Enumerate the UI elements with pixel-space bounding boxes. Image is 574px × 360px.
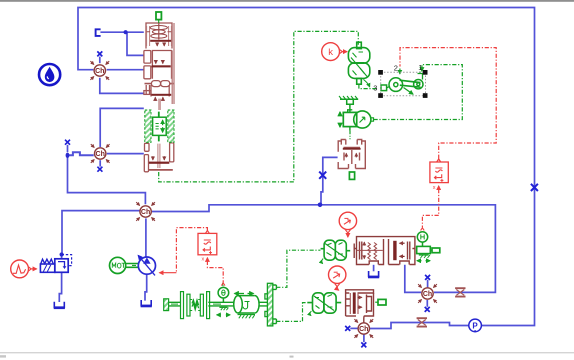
angle sensor theta [217,283,230,315]
spool valve left arrows [363,242,365,258]
signal plug right of spool [430,248,440,253]
orifice R1 upper [455,288,465,296]
flapper valve lower land [353,292,356,313]
tank under spool valve [368,271,379,277]
servo valve bottom chamber arrows [153,156,164,160]
servo valve pilot armature bar [150,40,171,42]
LVDT sensor H on spool [417,232,427,247]
signal source waveform circle [11,260,37,278]
plug X on right riser [531,184,538,191]
anchor above mass [339,96,358,112]
wire Ch3 bottom to pump [145,218,147,257]
signal link theta sensor to fx1 [207,261,223,283]
wire spool valve to tank [373,265,375,272]
flapper valve lower arrows [358,297,362,307]
junction left plug tee [66,153,70,158]
signal link H sensor to fx2 [422,189,438,227]
plug X on flapper drop line [319,172,326,179]
wire flapper valve drop to main line [321,157,338,203]
wire Ch2 bottom stem [99,160,101,166]
rotary load J [234,294,268,319]
junction E-line [124,30,128,34]
servo valve pilot piston arrows [157,42,164,45]
tank under pump [141,300,152,306]
tank under relief valve [54,302,65,308]
spool valve right arrows [400,243,405,256]
flapper valve upper arrows [346,153,356,157]
gain block k [322,43,347,61]
linkage port labels [373,63,422,93]
wire branch from E-line junction to stack port2 [127,32,144,55]
signal plug right of flapper2 [375,299,386,305]
window top border [0,0,574,2]
servo valve chamber up arrows [155,97,163,100]
tank bracket E at stack inlet [96,29,101,36]
signal link mass to flapper valve [349,131,351,139]
spool pilot lever pair [321,240,351,263]
pressure sensor P [469,319,482,332]
mechanical wall left [164,299,181,311]
signal link fx2 output to linkage pin2 [400,48,496,159]
svg-text:k: k [328,47,333,58]
flapper valve upper nozzle bar [343,148,361,150]
signal link cam to spool lever [276,250,320,287]
spool valve land [393,241,396,260]
servo valve spool top land bar [151,94,171,96]
selection box around linkage [378,70,427,98]
linkage crank mechanism [381,69,423,95]
function block f(x) pump control [198,230,217,254]
piecewise source above flapper lever [329,266,346,290]
servo valve mid land bar [152,65,171,67]
signal link sensor to linkage pin1 [374,65,463,120]
flapper valve lower body [346,290,374,323]
spool valve springs [357,243,383,260]
plug X left of Ch4 [345,326,350,331]
svg-text:x: x [433,185,436,191]
cam ratchet wall [265,283,277,326]
chamber Ch4 [354,319,373,338]
chamber Ch2 [91,144,110,163]
junction main line tee [318,203,323,208]
piecewise source above spool lever [339,212,356,237]
wire Ch1 top stem [99,57,101,64]
plug X below Ch5 [425,307,430,312]
position sensor circle [354,111,374,128]
signal plug under flapper valve [349,172,354,179]
signal link cam to flapper lever [276,303,307,322]
function block f(x) valve control [430,159,448,183]
wire Ch2 right to stack [107,153,144,155]
restrictor plug-leak between junction and Ch2 [69,152,94,155]
wire Ch1 right to stack [107,69,144,71]
plug X above Ch5 [425,275,430,280]
flapper valve upper body [338,140,365,169]
spring damper end-stop assembly [181,292,234,319]
wire main distribution line Ch3 to right [152,205,496,293]
wire X plug stem above left junction [67,145,69,152]
plug X above Ch1 [97,51,102,56]
chamber Ch3 [136,202,155,221]
servo valve pilot flapper lozenges [147,22,172,40]
orifice R2 lower [417,318,427,326]
wire pump to tank [145,274,147,300]
signal link fx1 output to pump [176,228,207,273]
wire main pressure loop top/right/bottom [78,8,535,329]
wire Ch5 bottom stem [426,300,428,307]
spool directional valve body [354,237,415,265]
servo valve bottom land bar [149,162,169,164]
servo valve stack body [144,23,175,172]
rotary-to-linear lever converter [348,42,369,87]
stack actuator hatched cylinders [145,110,174,142]
window bottom separator [0,352,574,353]
chamber Ch5 [418,284,437,303]
svg-text:x: x [202,257,205,263]
stack actuator control box [153,112,167,142]
wire relief valve to tank [59,272,61,302]
signal link lever to linkage pin3 [359,84,378,88]
bottom tick [290,356,294,358]
flapper pilot lever pair [307,293,341,316]
junction relief valve tee [60,252,64,256]
plug X at left junction [65,140,70,145]
servo valve mid chamber down arrows [156,60,163,63]
fluid properties drop icon [39,64,60,85]
electric motor MOT [110,257,139,273]
svg-text:2: 2 [394,64,398,73]
wire Ch1 bottom to stack [100,78,144,94]
spool end mass with friction [417,246,431,260]
wire Ch5 top stem [427,280,429,288]
signal link stack spool to lever k loop [159,31,359,182]
wire Ch2 top to stack [100,108,144,147]
spring-mass block [343,110,356,131]
svg-text:P: P [472,321,478,330]
svg-text:3: 3 [373,84,377,93]
relief valve [40,255,71,273]
plug X below Ch4 [361,342,366,347]
wire tank line E to stack [100,31,143,33]
wire Ch5 left to spool valve bottom [405,265,421,293]
wire Ch4 left plug stem [350,327,358,329]
plug X below Ch2 [97,167,102,172]
svg-text:1: 1 [418,63,422,72]
chamber Ch1 [90,61,109,80]
signal plug on stack top [156,12,161,20]
wire left junction down to Ch3 top [68,158,146,204]
wire Ch4 bottom stem [363,334,365,342]
variable displacement pump [138,255,155,275]
wire relief valve inlet stem [61,256,63,259]
wire relief-valve branch to Ch3 left [62,211,140,254]
displacement double arrow [339,112,341,127]
